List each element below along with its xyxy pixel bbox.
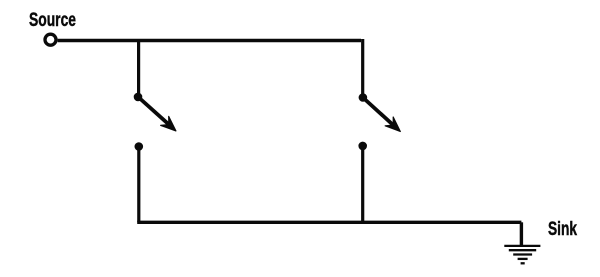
switch S1 pole contact dot — [134, 93, 143, 102]
wire ground stub down from bottom bus — [520, 222, 523, 245]
switch S2 blade (arrow) — [363, 98, 400, 132]
switch S1 blade (arrow) — [138, 97, 176, 131]
source terminal (open circle) — [45, 34, 56, 45]
wire from S2 throw contact down to bottom bus — [361, 146, 364, 222]
switch S2 throw contact dot — [358, 142, 367, 151]
switch S1 throw contact dot — [135, 142, 144, 151]
wire top bus corner down to switch S2 pole — [361, 39, 364, 98]
wire drop from top bus to switch S1 pole — [137, 41, 140, 97]
wire from S1 throw contact down to bottom bus — [137, 147, 140, 223]
wire bottom bus from S1 to ground stub corner — [137, 221, 521, 224]
switch S2 pole contact dot — [359, 93, 368, 102]
ground symbol — [504, 246, 540, 263]
svg-text:Sink: Sink — [548, 218, 577, 240]
svg-text:Source: Source — [29, 10, 76, 31]
wire top bus from source terminal to switch S2 corner — [58, 39, 361, 42]
